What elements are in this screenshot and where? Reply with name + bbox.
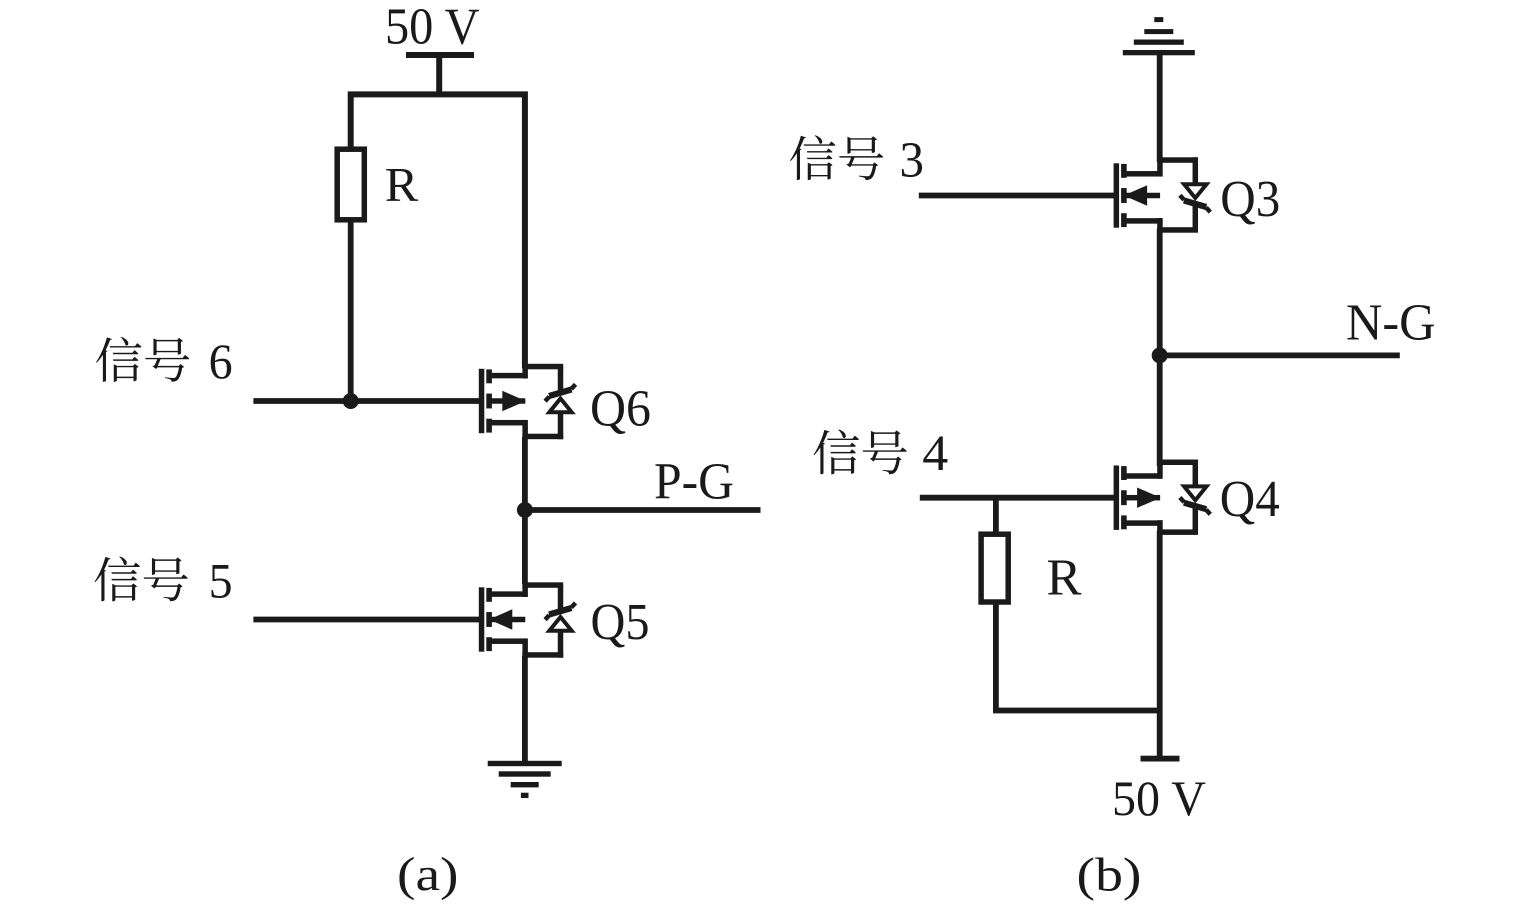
channel bar segments (486, 588, 492, 651)
drain link vertical (1157, 520, 1163, 535)
power symbol stem (436, 57, 442, 94)
wire Q4 source down to 50V terminal (1157, 531, 1163, 756)
svg-text:(b): (b) (1077, 849, 1142, 902)
wire P-G output stub (525, 507, 761, 513)
power symbol -50V terminal bar (circuit b) (1141, 756, 1180, 762)
svg-text:N-G: N-G (1346, 294, 1436, 351)
gate electrode bar (1114, 466, 1120, 530)
wire signal-5 gate lead (253, 617, 479, 623)
resistor R (circuit a) (337, 149, 364, 220)
transistor Q3 (upper NMOS, inverted) (1114, 157, 1211, 232)
transistor Q5 (low-side NMOS) (479, 582, 576, 657)
wire Q6 source to P-G node (522, 437, 528, 510)
drain-side stub (489, 591, 528, 597)
ground symbol (top of circuit b) (1123, 17, 1195, 55)
node P-G junction dot (517, 502, 533, 518)
node N-G junction dot (1152, 347, 1168, 363)
label 信号 4 (signal 4) (814, 426, 949, 482)
body diode of Q4 (1157, 460, 1210, 535)
transistor Q4 (lower PMOS, inverted) (1114, 459, 1211, 534)
wire resistor bottom to gate-6 node (348, 222, 354, 401)
body arrow (1137, 488, 1161, 508)
source-side stub (1124, 171, 1163, 177)
channel bar segments (486, 369, 492, 432)
source link vertical (522, 420, 528, 439)
wire gate-4 lead to resistor R (993, 498, 999, 534)
svg-text:Q6: Q6 (590, 380, 651, 437)
svg-text:3: 3 (900, 133, 925, 189)
svg-text:5: 5 (209, 553, 233, 609)
power symbol +50V terminal bar (circuit a) (406, 52, 474, 58)
wire Q3 source to N-G node (1157, 229, 1163, 355)
channel bar segments (1121, 466, 1127, 529)
source-side stub (489, 420, 528, 426)
wire ground to Q3 drain (1157, 55, 1163, 162)
wire signal-3 gate lead (919, 193, 1115, 199)
body lead (1124, 193, 1161, 199)
body lead (489, 617, 526, 623)
source link vertical (522, 638, 528, 657)
channel bar segments (1121, 164, 1127, 227)
wire signal-6 gate lead (253, 398, 479, 404)
drain-side stub (489, 373, 528, 379)
wire top rail: resistor branch, supply, Q6 drain branch (351, 94, 525, 368)
label 信号 6 (signal 6) (96, 333, 233, 389)
source-side stub (1124, 473, 1163, 479)
svg-text:Q4: Q4 (1220, 471, 1280, 528)
body lead (489, 398, 526, 404)
body diode of Q6 (522, 364, 575, 439)
svg-text:R: R (385, 157, 419, 212)
svg-text:P-G: P-G (654, 453, 734, 510)
gate electrode bar (1114, 163, 1120, 227)
svg-text:50 V: 50 V (1112, 770, 1206, 826)
svg-text:4: 4 (922, 426, 948, 482)
svg-text:Q3: Q3 (1220, 171, 1280, 228)
svg-text:R: R (1047, 549, 1082, 606)
body lead (1124, 495, 1161, 501)
ground symbol (circuit a) (488, 761, 562, 798)
wire P-G node to Q5 drain (522, 510, 528, 584)
body arrow (489, 609, 512, 629)
wire N-G output stub (1160, 352, 1400, 358)
wire N-G node to Q4 drain (1157, 355, 1163, 466)
drain-side stub (1124, 218, 1163, 224)
label 信号 5 (signal 5) (95, 553, 233, 609)
wire resistor bottom to Q4 source rail (996, 600, 1160, 711)
drain-side stub (1124, 520, 1163, 526)
svg-text:Q5: Q5 (591, 594, 650, 651)
wire Q5 source to ground (522, 656, 528, 763)
drain link vertical (522, 582, 528, 597)
body diode of Q3 (1157, 157, 1210, 232)
label 信号 3 (signal 3) (790, 133, 924, 189)
gate electrode bar (479, 587, 485, 651)
source link vertical (1157, 157, 1163, 176)
drain link vertical (1157, 218, 1163, 233)
node junction dot (gate 6 / resistor R) (343, 393, 359, 409)
resistor R (circuit b) (981, 534, 1008, 602)
body diode of Q5 (522, 582, 575, 657)
body arrow (1124, 185, 1147, 205)
body arrow (502, 391, 526, 411)
drain link vertical (522, 364, 528, 379)
source-side stub (489, 638, 528, 644)
transistor Q6 (high-side PMOS) (479, 364, 576, 439)
source link vertical (1157, 459, 1163, 478)
gate electrode bar (479, 369, 485, 433)
svg-text:50 V: 50 V (385, 0, 480, 56)
wire signal-4 gate lead (920, 495, 1115, 501)
svg-text:6: 6 (209, 333, 233, 389)
svg-text:(a): (a) (397, 848, 459, 901)
